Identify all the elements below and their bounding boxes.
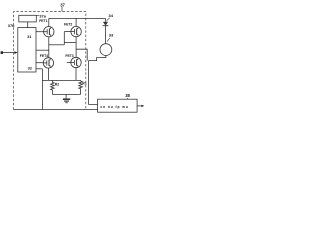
svg-text:34: 34 [109,13,114,18]
wire FET3 source to rail [75,68,77,81]
svg-text:31: 31 [27,35,31,39]
top supply rail wire [49,17,106,19]
label 32 [28,66,32,70]
motor bottom wire staircase [89,56,106,105]
FET1 [44,27,54,37]
FET3 [71,57,81,67]
label 38 [125,93,130,98]
gate wire box31 to FET1 [36,31,44,33]
bottom node wire R2 to R1 [52,93,80,95]
leader for 37a [36,14,39,16]
svg-text:R2: R2 [55,82,59,86]
control box 38 [98,99,138,112]
svg-text:37: 37 [60,2,65,7]
ground [63,94,70,102]
leader for 38 [127,98,129,99]
diode 34 [103,18,109,43]
gate wire box31 to FET4 [36,62,43,64]
svg-text:37a: 37a [39,13,46,18]
FET4 [43,58,53,68]
wire to FET3 gate [67,62,71,64]
svg-text:FET2: FET2 [64,22,72,26]
wire FET2 to FET3 (node B column) [75,37,77,58]
control block 31/32 (tall box) [18,28,36,72]
label 37a [39,13,46,18]
wire FET4 source to rail [47,68,49,80]
label 37b [8,23,15,28]
label 31 [27,35,31,39]
svg-text:32: 32 [28,66,32,70]
svg-text:R1: R1 [82,81,86,85]
FET2 [71,26,81,36]
label FET4 [40,54,48,58]
label 34 [109,13,114,18]
label 37 [60,2,65,7]
node B tap wire [76,49,87,60]
oscillator block (rect1) [19,15,37,22]
input arrow wire [3,52,15,54]
dashed enclosure box 37 [14,12,86,110]
wire jog to node B column [64,42,76,44]
label R2 [55,82,59,86]
wire FET1 to FET4 (node A column) [48,37,50,58]
svg-text:33: 33 [109,33,114,38]
gate wire box31 mid to node column [36,49,49,51]
leader for 34 [107,18,110,21]
wire to FET2 gate [64,31,71,33]
wire FET1 drain riser [48,18,50,26]
leader for 33 [107,38,110,42]
svg-text:37b: 37b [8,23,15,28]
wire box31 lower stub to left drop [36,68,42,70]
label FET3 [65,54,73,58]
wire FET2 drain riser [75,18,77,26]
svg-text:FET4: FET4 [40,54,48,58]
motor 33 [100,44,112,56]
label FET1 [39,19,47,23]
svg-text:cn nu fp wu: cn nu fp wu [100,105,128,109]
node A tap wire to FET2 gate / FET3 gate riser [49,44,65,46]
resistor R1 [79,80,83,94]
wire rect1 to box31 [27,22,29,28]
input terminal [1,51,3,54]
resistor R2 [51,80,55,94]
left drop wire to bottom [41,69,43,110]
leader for 37 [61,7,63,12]
bottom wire to box 38 [14,109,98,111]
gate riser wire [63,32,65,45]
label 33 [109,33,114,38]
label FET2 [64,22,72,26]
output arrow from box 38 [137,105,142,107]
label R1 [82,81,86,85]
bottom rail wire [42,79,80,81]
box 38 inner text [100,105,128,109]
svg-text:FET1: FET1 [39,19,47,23]
svg-text:FET3: FET3 [65,54,73,58]
svg-text:38: 38 [125,93,130,98]
